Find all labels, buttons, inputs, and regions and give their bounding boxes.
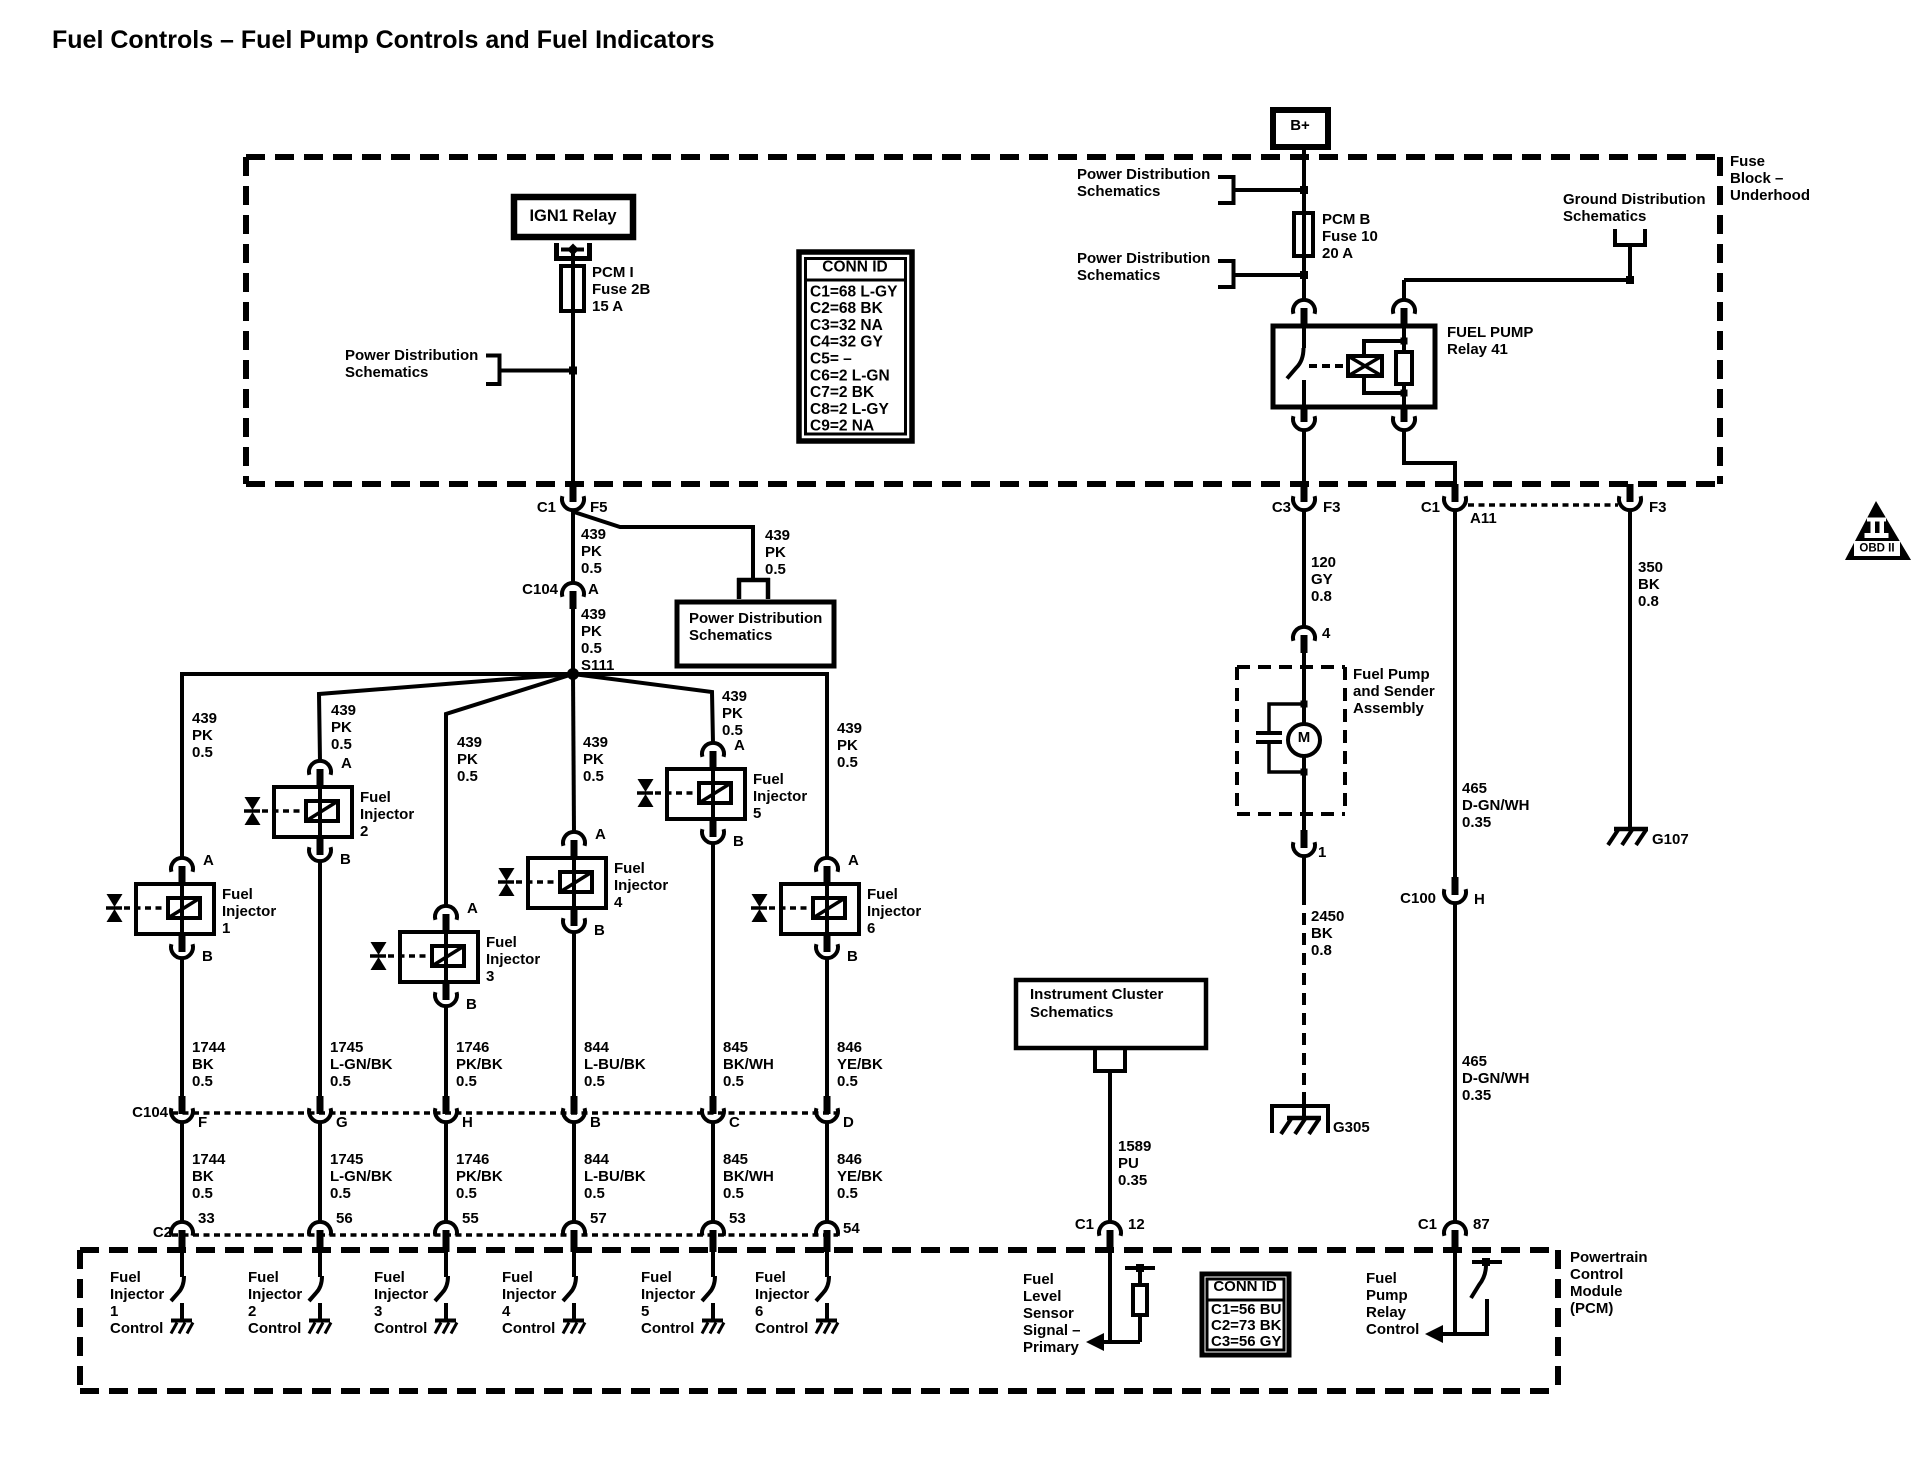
pin label B (injector 4) [594,922,605,939]
CONN ID table (top) [799,252,912,441]
svg-text:BK: BK [192,1168,214,1185]
svg-text:54: 54 [843,1220,860,1237]
wire label 846 YE/BK 0.5 (upper) [837,1039,883,1090]
wire: PCM B fuse to fuel pump relay pin 30 [1302,256,1306,300]
pin label 1 [1318,844,1326,861]
pin label C1 / 87 [1418,1216,1490,1233]
svg-text:C5= –: C5= – [810,351,852,368]
connector C104 pin H [435,1096,457,1122]
label: Fuel Pump Relay Control [1366,1270,1419,1338]
pin label C3 / F3 [1272,499,1341,516]
svg-text:PK: PK [457,751,478,768]
svg-text:C3=56 GY: C3=56 GY [1211,1333,1281,1350]
OBD II symbol [1845,501,1911,560]
fuel pump and sender assembly enclosure (dashed) [1237,667,1345,814]
wire label 439 PK 0.5 (column 2) [331,702,356,753]
ground (PCM internal, injector 5 driver) [702,1321,724,1334]
svg-text:(PCM): (PCM) [1570,1300,1613,1317]
svg-text:Fuel: Fuel [248,1269,279,1286]
connector C1 pin 87 (PCM) [1444,1222,1466,1252]
svg-text:Fuel Controls – Fuel Pump Cont: Fuel Controls – Fuel Pump Controls and F… [52,26,715,54]
pin label G [336,1114,348,1131]
svg-text:Module: Module [1570,1283,1623,1300]
wire: splice S111 to fuel injector 2 pin A (circuit 439 PK) [319,674,573,761]
wire label 439 PK 0.5 (column 3) [457,734,482,785]
svg-text:0.5: 0.5 [330,1185,351,1202]
wire label 845 BK/WH 0.5 (lower) [723,1151,774,1202]
wire: power distribution tap (lower) [1235,271,1308,279]
svg-text:C9=2 NA: C9=2 NA [810,418,874,435]
svg-text:120: 120 [1311,554,1336,571]
fuse PCM B Fuse 10 20 A [1294,213,1313,256]
svg-text:CONN ID: CONN ID [1213,1278,1277,1295]
ground (PCM internal, injector 1 driver) [171,1321,193,1334]
pin label B (injector 2) [340,851,351,868]
svg-text:2450: 2450 [1311,908,1344,925]
svg-text:B: B [594,922,605,939]
PCM driver: fuel injector 5 control switch [702,1252,715,1321]
svg-text:D: D [843,1114,854,1131]
svg-text:Injector: Injector [374,1286,428,1303]
svg-text:0.8: 0.8 [1311,942,1332,959]
wire label 1744 BK 0.5 (lower) [192,1151,226,1202]
reference: Power Distribution Schematics (upper right) [1077,166,1234,205]
svg-text:0.5: 0.5 [581,560,602,577]
svg-text:2: 2 [248,1303,256,1320]
label C104 [132,1104,169,1121]
pin label A (injector 2) [341,755,352,772]
svg-text:C6=2 L-GN: C6=2 L-GN [810,367,890,384]
svg-text:0.5: 0.5 [723,1073,744,1090]
svg-text:BK: BK [1311,925,1333,942]
svg-text:Fuel: Fuel [360,789,391,806]
label: Fuel Pump and Sender Assembly [1353,666,1435,717]
wire: circuit 439 PK 0.5 (C1 F5 to C104 A) [571,510,575,583]
fuse block underhood enclosure (dashed box) [246,157,1720,484]
svg-text:Fuse: Fuse [1730,153,1765,170]
svg-text:Fuel: Fuel [867,886,898,903]
connector: fuel injector 6 pin A [816,858,838,884]
svg-text:B: B [340,851,351,868]
pin label B (injector 3) [466,996,477,1013]
svg-text:439: 439 [457,734,482,751]
svg-text:Fuel: Fuel [753,771,784,788]
svg-text:Fuel: Fuel [502,1269,533,1286]
wire: fuel injector 5 pin B to C104 pin C (circuit 845 BK/WH) [711,843,715,1097]
pin label B (injector 6) [847,948,858,965]
svg-text:CONN ID: CONN ID [822,258,887,275]
svg-text:Control: Control [374,1320,427,1337]
connector C1 pin 12 (PCM) [1099,1222,1121,1252]
pin label A (injector 4) [595,826,606,843]
wire: B+ to PCM B fuse [1302,147,1306,213]
pin label C1 / 12 [1075,1216,1145,1233]
svg-text:Pump: Pump [1366,1287,1408,1304]
svg-text:C3: C3 [1272,499,1291,516]
svg-text:0.5: 0.5 [192,744,213,761]
svg-text:350: 350 [1638,559,1663,576]
PCM driver: fuel injector 3 control switch [435,1252,448,1321]
label: FUEL PUMP Relay 41 [1447,324,1533,358]
label G107 [1652,831,1689,848]
svg-text:PK: PK [583,751,604,768]
svg-text:1: 1 [1318,844,1326,861]
svg-text:A: A [341,755,352,772]
ground G107 [1608,829,1648,845]
svg-text:B: B [590,1114,601,1131]
PCM driver: fuel pump relay control switch [1425,1252,1502,1343]
svg-text:3: 3 [374,1303,382,1320]
svg-text:Level: Level [1023,1288,1061,1305]
svg-text:C4=32 GY: C4=32 GY [810,334,883,351]
label: Fuel Injector 1 [222,886,276,937]
svg-text:F3: F3 [1649,499,1667,516]
wire: circuit 439 PK 0.5 to splice S111 [571,609,575,674]
label: Fuel Injector 6 [867,886,921,937]
svg-text:844: 844 [584,1039,610,1056]
label: Fuel Injector 3 [486,934,540,985]
svg-text:C8=2 L-GY: C8=2 L-GY [810,401,889,418]
svg-text:Relay: Relay [1366,1304,1407,1321]
wire: splice S111 to fuel injector 3 pin A (circuit 439 PK) [446,674,573,906]
svg-text:Fuel: Fuel [486,934,517,951]
label: Fuse Block - Underhood [1730,153,1810,204]
svg-text:Control: Control [110,1320,163,1337]
svg-text:Schematics: Schematics [1563,208,1646,225]
svg-text:C104: C104 [132,1104,169,1121]
svg-text:0.5: 0.5 [837,1185,858,1202]
svg-text:5: 5 [753,805,761,822]
label: Fuel Injector 4 Control [502,1269,556,1337]
connector: fuel injector 2 pin A [309,761,331,787]
pin label C100 / H [1400,890,1485,908]
wire: circuit 350 BK 0.8 to G107 [1628,510,1632,827]
svg-text:YE/BK: YE/BK [837,1056,883,1073]
ground G305 [1272,1092,1328,1134]
connector: fuel injector 3 pin B [435,982,457,1006]
label: Fuel Injector 2 [360,789,414,840]
svg-text:439: 439 [837,720,862,737]
connector: relay 41 pin 86 [1393,407,1415,430]
ground (PCM internal, injector 3 driver) [435,1321,457,1334]
fuel injector 6 (solenoid valve) [751,884,859,934]
wire label 439 PK 0.5 (column 4) [583,734,608,785]
svg-text:A: A [848,852,859,869]
svg-text:439: 439 [331,702,356,719]
svg-text:0.35: 0.35 [1462,1087,1491,1104]
svg-text:F5: F5 [590,499,608,516]
wire label 439 PK 0.5 (column 1) [192,710,217,761]
svg-text:PU: PU [1118,1155,1139,1172]
connector C104 pin B [563,1096,585,1122]
svg-text:OBD II: OBD II [1859,542,1894,554]
label: Fuel Injector 5 Control [641,1269,695,1337]
wire: fuel injector 4 pin B to C104 pin B (circuit 844 L-BU/BK) [572,932,576,1097]
battery positive B+ terminal [1273,110,1328,147]
svg-text:846: 846 [837,1151,862,1168]
svg-text:465: 465 [1462,1053,1487,1070]
svg-text:B: B [466,996,477,1013]
pin label 55 [462,1210,479,1227]
bracket to power distribution schematics box [737,578,770,599]
svg-text:G107: G107 [1652,831,1689,848]
PCM internal: fuel level sense pull-up resistor R1 [1125,1264,1155,1342]
svg-text:439: 439 [765,527,790,544]
pin label A (injector 1) [203,852,214,869]
wire: fuel level sensor signal (PCM internal) [1086,1252,1140,1351]
svg-text:PK/BK: PK/BK [456,1056,503,1073]
svg-text:439: 439 [583,734,608,751]
connector C104 (in-line, dashed) [172,1111,838,1115]
svg-text:1589: 1589 [1118,1138,1151,1155]
ground (PCM internal, injector 4 driver) [563,1321,585,1334]
svg-text:1: 1 [222,920,230,937]
label: Fuel Injector 6 Control [755,1269,809,1337]
svg-text:1746: 1746 [456,1151,489,1168]
svg-text:0.5: 0.5 [837,1073,858,1090]
svg-text:GY: GY [1311,571,1333,588]
IGN1 relay output terminal bracket [554,243,592,259]
svg-text:C1=56 BU: C1=56 BU [1211,1301,1281,1318]
svg-text:PK: PK [192,727,213,744]
svg-text:A: A [203,852,214,869]
wire: C104 pin G to C2 pin 56 [318,1122,322,1222]
wire label 1589 PU 0.35 [1118,1138,1151,1189]
wire: ground distribution to relay pin 85 [1404,247,1634,300]
svg-text:0.8: 0.8 [1311,588,1332,605]
svg-text:465: 465 [1462,780,1487,797]
svg-text:Sensor: Sensor [1023,1305,1074,1322]
svg-text:1746: 1746 [456,1039,489,1056]
svg-text:A11: A11 [1470,510,1497,527]
reference box: Instrument Cluster Schematics [1016,980,1206,1048]
svg-text:C1: C1 [1421,499,1440,516]
svg-text:G: G [336,1114,348,1131]
svg-text:0.5: 0.5 [456,1185,477,1202]
svg-text:PK: PK [765,544,786,561]
svg-text:C100: C100 [1400,890,1436,907]
svg-text:2: 2 [360,823,368,840]
wire label 1745 L-GN/BK 0.5 (upper) [330,1039,393,1090]
svg-text:439: 439 [192,710,217,727]
svg-text:0.5: 0.5 [581,640,602,657]
svg-text:B+: B+ [1290,117,1310,134]
svg-text:C1: C1 [1418,1216,1437,1233]
wire: relay 86 to C1 A11 [1404,430,1455,484]
svg-text:Fuel: Fuel [614,860,645,877]
svg-text:Control: Control [1366,1321,1419,1338]
svg-text:C2: C2 [153,1224,172,1241]
svg-text:Fuel: Fuel [222,886,253,903]
svg-text:56: 56 [336,1210,353,1227]
wire label 1746 PK/BK 0.5 (upper) [456,1039,503,1090]
svg-text:B: B [733,833,744,850]
svg-text:439: 439 [581,526,606,543]
connector: fuel injector 5 pin B [702,819,724,843]
wire: pump return to pin 1 [1302,772,1306,830]
wire label 844 L-BU/BK 0.5 (lower) [584,1151,646,1202]
svg-text:Injector: Injector [867,903,921,920]
label: PCM I Fuse 2B 15 A [592,264,651,315]
svg-text:PK: PK [837,737,858,754]
svg-text:Fuel: Fuel [110,1269,141,1286]
connector C2 (PCM, dashed) [172,1233,838,1237]
svg-text:0.5: 0.5 [331,736,352,753]
connector C2 pin 53 [702,1222,724,1252]
wire: fuel injector 6 pin B to C104 pin D (circuit 846 YE/BK) [825,958,829,1097]
svg-text:6: 6 [755,1303,763,1320]
fuel pump relay 41 [1273,326,1435,407]
wire label 439 PK 0.5 (branch) [765,527,790,578]
wire label 439 PK 0.5 (column 6) [837,720,862,771]
pin label B (injector 5) [733,833,744,850]
wire: pin 4 into pump assembly [1302,653,1306,704]
fuse PCM I Fuse 2B 15 A [561,266,584,311]
svg-text:4: 4 [614,894,623,911]
svg-text:Schematics: Schematics [1077,183,1160,200]
connector C104 pin C [702,1096,724,1122]
connector: fuel injector 1 pin A [171,858,193,884]
pin label B [590,1114,601,1131]
pin label 57 [590,1210,607,1227]
svg-text:C1=68 L-GY: C1=68 L-GY [810,283,898,300]
pin label 56 [336,1210,353,1227]
svg-text:L-GN/BK: L-GN/BK [330,1168,393,1185]
wire: fuel injector 1 pin B to C104 pin F (circuit 1744 BK) [180,958,184,1097]
svg-text:Fuse 10: Fuse 10 [1322,228,1378,245]
wire: circuit 465 D-GN/WH 0.35 (upper) [1453,510,1457,877]
pin label 33 [198,1210,215,1227]
svg-text:PK: PK [722,705,743,722]
wire: splice S111 to fuel injector 5 pin A (circuit 439 PK) [573,674,713,743]
svg-text:IGN1 Relay: IGN1 Relay [529,207,617,225]
svg-text:Powertrain: Powertrain [1570,1249,1648,1266]
svg-text:Instrument Cluster: Instrument Cluster [1030,986,1164,1003]
svg-text:439: 439 [581,606,606,623]
reference: Power Distribution Schematics (lower right) [1077,250,1234,289]
svg-text:Ground Distribution: Ground Distribution [1563,191,1705,208]
label G305 [1333,1119,1370,1136]
connector C2 pin 57 [563,1222,585,1252]
svg-text:C2=68 BK: C2=68 BK [810,300,884,317]
pin label H [462,1114,473,1131]
pin label 4 [1322,625,1331,642]
svg-text:Schematics: Schematics [1030,1004,1113,1021]
label: Powertrain Control Module (PCM) [1570,1249,1648,1317]
fuel injector 4 (solenoid valve) [498,858,606,908]
svg-text:B: B [202,948,213,965]
wire: circuit 465 D-GN/WH 0.35 (lower) [1453,903,1457,1222]
label: Fuel Injector 4 [614,860,668,911]
wire label 120 GY 0.8 [1311,554,1336,605]
pin label 53 [729,1210,746,1227]
svg-text:BK/WH: BK/WH [723,1168,774,1185]
wire label 439 PK 0.5 [581,526,606,577]
pin label F [198,1114,207,1131]
connector C2 pin 56 [309,1222,331,1252]
label: Fuel Injector 2 Control [248,1269,302,1337]
wire: fuel injector 2 pin B to C104 pin G (circuit 1745 L-GN/BK) [318,861,322,1097]
svg-text:F: F [198,1114,207,1131]
svg-text:0.5: 0.5 [330,1073,351,1090]
svg-text:Signal –: Signal – [1023,1322,1081,1339]
svg-text:55: 55 [462,1210,479,1227]
wire: splice S111 to fuel injector 1 pin A (circuit 439 PK) [182,674,573,858]
connector: fuel injector 1 pin B [171,934,193,958]
connector: fuel injector 5 pin A [702,743,724,769]
PCM driver: fuel injector 2 control switch [309,1252,322,1321]
wire: power distribution tap [501,367,577,375]
svg-text:5: 5 [641,1303,649,1320]
svg-text:3: 3 [486,968,494,985]
svg-text:1744: 1744 [192,1039,226,1056]
svg-text:Schematics: Schematics [689,627,772,644]
wire: C104 pin D to C2 pin 54 [825,1122,829,1222]
fuel injector 1 (solenoid valve) [106,884,214,934]
wire: fuel injector 3 pin B to C104 pin H (circuit 1746 PK/BK) [444,1006,448,1097]
connector: fuel injector 4 pin A [563,832,585,858]
svg-text:53: 53 [729,1210,746,1227]
svg-text:BK: BK [1638,576,1660,593]
pin label A (injector 5) [734,737,745,754]
svg-text:Fuel Pump: Fuel Pump [1353,666,1430,683]
svg-text:PK: PK [581,623,602,640]
connector: fuel injector 3 pin A [435,906,457,932]
wire: C104 pin C to C2 pin 53 [711,1122,715,1222]
pin label D [843,1114,854,1131]
svg-text:D-GN/WH: D-GN/WH [1462,797,1530,814]
wire: circuit 2450 BK 0.8 to G305 [1302,856,1306,1090]
splice S111 [567,668,579,680]
connector: relay 41 pin 87 [1293,407,1315,430]
svg-text:12: 12 [1128,1216,1145,1233]
PCM driver: fuel injector 4 control switch [563,1252,576,1321]
title [52,26,715,54]
svg-text:Assembly: Assembly [1353,700,1425,717]
svg-text:Block –: Block – [1730,170,1783,187]
svg-text:L-BU/BK: L-BU/BK [584,1168,646,1185]
wire label 465 D-GN/WH 0.35 (upper) [1462,780,1530,831]
connector C2 pin 54 [816,1222,838,1252]
svg-text:1745: 1745 [330,1039,363,1056]
svg-text:M: M [1298,729,1311,746]
wire: IGN1 relay to PCM I fuse [571,252,575,267]
connector C104 pin A [562,583,584,609]
svg-text:0.5: 0.5 [192,1073,213,1090]
svg-text:Injector: Injector [614,877,668,894]
svg-text:Fuse 2B: Fuse 2B [592,281,651,298]
svg-text:0.5: 0.5 [837,754,858,771]
wire: circuit 1589 PU 0.35 [1108,1071,1112,1222]
svg-text:Injector: Injector [755,1286,809,1303]
ground (PCM internal, injector 2 driver) [309,1321,331,1334]
svg-text:0.35: 0.35 [1462,814,1491,831]
svg-text:Injector: Injector [641,1286,695,1303]
pin label C1 / F5 [537,499,608,516]
pin label C1 / A11 [1421,499,1497,527]
svg-text:Fuel: Fuel [641,1269,672,1286]
connector: fuel pump pin 1 [1293,830,1315,856]
wire label 350 BK 0.8 [1638,559,1663,610]
svg-text:Fuel: Fuel [1023,1271,1054,1288]
svg-text:PK: PK [581,543,602,560]
connector F3 (ground feed) [1619,484,1641,510]
svg-text:Power Distribution: Power Distribution [689,610,822,627]
reference box: Power Distribution Schematics [677,602,834,666]
svg-text:87: 87 [1473,1216,1490,1233]
svg-text:Injector: Injector [486,951,540,968]
svg-text:YE/BK: YE/BK [837,1168,883,1185]
